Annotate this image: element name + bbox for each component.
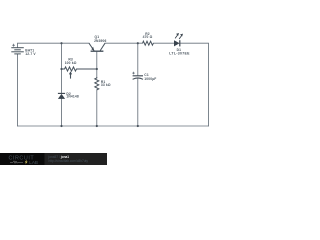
wire D2 cathode to bottom rail [61,99,63,126]
LED D1 labels [169,48,190,55]
transistor Q1 2N3906 PNP [89,43,105,51]
svg-text:LAB: LAB [29,160,38,165]
resistor R3 100 kΩ potentiometer, horizontal [62,67,97,71]
battery BAT1 [11,48,23,54]
wire Q1 collector to R2 [105,42,143,44]
watermark user line jona57 / jona1 [48,155,89,163]
capacitor C1 1000uF polarized [133,76,143,80]
CircuitLab logo wordmark CIRCUIT [9,156,38,165]
resistor R1 33 kΩ vertical [95,77,99,90]
resistor R2 labels [143,32,153,39]
CircuitLab logo scope trace [10,161,23,164]
svg-text:http://circuitlab.com/c8b7uty: http://circuitlab.com/c8b7uty [49,159,89,163]
node junction dot bottom rail / C1 [137,125,139,127]
battery label BAT1 / 12.7 V [25,48,36,56]
node junction dot top rail / C1 [137,42,139,44]
resistor R3 labels [65,57,77,64]
CircuitLab watermark text box [45,153,108,165]
potentiometer R3 wiper arrow [70,74,72,79]
svg-text:LTL-307EE: LTL-307EE [169,51,190,55]
resistor R1 labels [101,80,111,87]
transistor Q1 emitter arrow (PNP, points toward base bar) [91,47,94,51]
wire R2 to D1 anode [153,42,174,44]
wire C1 bottom lead [137,79,139,126]
wire C1 top lead [137,43,139,75]
battery plus sign [12,44,15,47]
CircuitLab logo lightning bolt [25,160,28,165]
resistor R2 470 Ω horizontal [143,41,154,45]
diode D2 1N4148 [58,93,65,99]
node junction dot R3 right / base line [96,68,98,70]
node junction dot bottom rail / R1 [96,125,98,127]
wire bottom rail [18,125,209,127]
svg-text:1000µF: 1000µF [144,77,156,81]
transistor Q1 labels [94,35,106,43]
wire node A vertical: top rail to R3 left and D2 anode [61,43,63,93]
svg-text:470 Ω: 470 Ω [143,35,153,39]
wire R1 bottom to bottom rail [96,90,98,126]
wire top rail left (battery + to Q1 emitter) [18,43,90,47]
svg-text:100 kΩ: 100 kΩ [65,61,77,65]
capacitor C1 labels [144,73,156,81]
node junction dot R3 left [60,68,62,70]
wire D1 cathode to right rail, down right side [181,43,209,126]
LED D1 LTL-307EE [174,40,180,46]
diode D2 labels [66,92,78,99]
svg-text:33 kΩ: 33 kΩ [101,83,111,87]
CircuitLab watermark logo box [0,153,45,165]
svg-text:1N4148: 1N4148 [66,95,78,99]
capacitor C1 plus sign [132,72,135,75]
svg-text:12.7 V: 12.7 V [25,52,36,56]
node junction dot bottom rail / D2 [60,125,62,127]
svg-text:2N3906: 2N3906 [94,39,106,43]
wire Q1 base down to R1 top [96,52,98,77]
LED D1 emission arrow 1 [175,35,178,39]
node junction dot top rail / node A [60,42,62,44]
wire battery - down left rail [17,54,19,126]
LED D1 emission arrow 2 [179,36,182,40]
